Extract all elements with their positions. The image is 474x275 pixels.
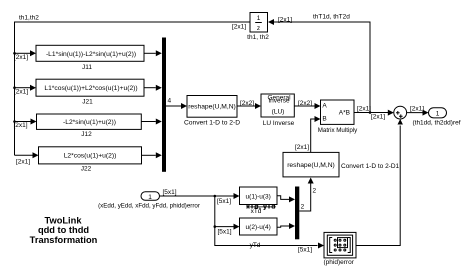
block Fcn J22	[39, 147, 142, 173]
block Fcn J12	[37, 114, 142, 138]
svg-text:-L2*sin(u(1)+u(2)): -L2*sin(u(1)+u(2))	[63, 119, 116, 126]
node junction dot MM output	[369, 111, 372, 114]
svg-text:[2x1]: [2x1]	[14, 54, 28, 61]
wire reshape1 to LU inverse, [2x2]	[237, 100, 261, 109]
svg-text:[5x1]: [5x1]	[298, 247, 312, 254]
wire J22 to mux	[142, 152, 162, 158]
svg-text:[2x1]: [2x1]	[410, 105, 424, 112]
wire yTd to mux2	[278, 223, 296, 229]
block Unit Delay 1/z	[232, 13, 269, 42]
svg-text:[5x1]: [5x1]	[163, 189, 177, 196]
block Selector (phid)error	[324, 232, 356, 266]
wire feedback top: delay output left then down left rail	[15, 22, 251, 155]
wire J12 to mux	[141, 119, 162, 125]
svg-text:A*B: A*B	[339, 110, 350, 117]
svg-text:[2x2]: [2x2]	[298, 100, 312, 107]
svg-text:[5x1]: [5x1]	[217, 198, 231, 205]
wire mux to reshape1 with width 4	[166, 98, 187, 110]
svg-text:(phid)error: (phid)error	[324, 259, 355, 266]
svg-text:-L1*sin(u(1))-L2*sin(u(1)+u(2): -L1*sin(u(1))-L2*sin(u(1)+u(2))	[46, 51, 136, 58]
svg-text:z: z	[257, 25, 260, 32]
svg-text:[2x1]: [2x1]	[16, 158, 30, 165]
svg-text:B: B	[322, 116, 326, 123]
svg-text:(th1dd, th2dd)ref: (th1dd, th2dd)ref	[412, 120, 460, 127]
wire into J11	[14, 50, 36, 61]
mux Mux2 bar	[295, 187, 299, 240]
node junction dot inport branch	[214, 195, 217, 198]
svg-text:L2*cos(u(1)+u(2)): L2*cos(u(1)+u(2))	[64, 152, 117, 159]
svg-text:u(2)-u(4): u(2)-u(4)	[246, 224, 271, 231]
svg-text:yTd: yTd	[250, 242, 261, 249]
block Reshape2 Convert 1-D to 2-D1	[283, 152, 400, 177]
svg-text:1: 1	[257, 15, 261, 22]
wire inport to xTd	[160, 193, 240, 205]
svg-text:[2x1]: [2x1]	[232, 24, 246, 31]
wire into J21	[14, 85, 36, 96]
svg-text:[2x1]: [2x1]	[14, 122, 28, 129]
svg-text:J21: J21	[82, 98, 93, 105]
svg-text:A: A	[322, 103, 327, 110]
svg-text:LU Inverse: LU Inverse	[263, 120, 295, 127]
wire J21 to mux	[144, 85, 162, 91]
svg-text:[2x1]: [2x1]	[14, 89, 28, 96]
block Fcn yTd	[240, 218, 278, 249]
svg-text:1: 1	[148, 194, 152, 201]
svg-text:u(1)-u(3): u(1)-u(3)	[246, 194, 271, 201]
svg-text:4: 4	[168, 98, 172, 105]
wire into J12	[14, 119, 37, 129]
block Reshape Convert 1-D to 2-D	[184, 96, 240, 127]
node junction dot J12 branch	[13, 120, 16, 123]
node junction dot J21 branch	[13, 86, 16, 89]
svg-text:(LU): (LU)	[272, 108, 285, 115]
wire into yTd	[215, 224, 240, 236]
block LU Inverse	[261, 94, 295, 127]
svg-text:th1,th2: th1,th2	[19, 15, 39, 22]
wire feedback up to delay	[268, 14, 370, 113]
wire mux2 up to reshape2	[299, 178, 316, 212]
wire MM output to sum	[354, 106, 394, 121]
wire reshape2 to MM B input	[295, 116, 321, 152]
svg-text:[2x1]: [2x1]	[371, 114, 385, 121]
block Fcn J11	[36, 45, 144, 71]
svg-text:J11: J11	[82, 64, 92, 71]
svg-text:reshape(U,M,N): reshape(U,M,N)	[287, 162, 335, 169]
svg-text:[2x2]: [2x2]	[240, 100, 254, 107]
svg-text:Matrix Multiply: Matrix Multiply	[318, 127, 358, 134]
svg-text:L1*cos(u(1))+L2*cos(u(1)+u(2)): L1*cos(u(1))+L2*cos(u(1)+u(2))	[44, 85, 137, 92]
svg-text:(xEdd, yEdd, xFdd, yFdd, phidd: (xEdd, yEdd, xFdd, yFdd, phidd)error	[98, 203, 200, 210]
svg-text:thT1d, thT2d: thT1d, thT2d	[313, 14, 350, 21]
text title TwoLink qdd to thdd Transformation	[30, 216, 98, 245]
svg-text:Convert 1-D to 2-D: Convert 1-D to 2-D	[184, 119, 240, 126]
svg-text:TwoLink: TwoLink	[44, 216, 82, 226]
wire J11 to mux	[144, 50, 162, 56]
node junction dot yTd branch	[214, 225, 217, 228]
sum block	[394, 106, 407, 119]
svg-text:Transformation: Transformation	[30, 235, 98, 245]
svg-text:xTd: xTd	[251, 208, 262, 215]
block Fcn J21	[36, 79, 144, 105]
node junction dot J11 branch	[13, 52, 16, 55]
inport 1 (xEdd...)	[98, 189, 200, 210]
svg-text:[2x1]: [2x1]	[295, 144, 309, 151]
svg-text:[5x1]: [5x1]	[218, 229, 232, 236]
svg-text:2: 2	[313, 188, 317, 195]
svg-text:[2x1]: [2x1]	[357, 106, 371, 113]
svg-text:J12: J12	[81, 131, 92, 138]
node th1,th2 label	[19, 15, 39, 22]
svg-text:1: 1	[436, 111, 440, 118]
wire branch down to yTd and selector	[215, 196, 324, 254]
svg-text:[2x1]: [2x1]	[278, 16, 292, 23]
outport 1 (th1dd, th2dd)ref	[412, 108, 460, 127]
wire selector to sum bottom	[356, 119, 403, 246]
block Matrix Multiply U1	[318, 100, 358, 134]
svg-text:reshape(U,M,N): reshape(U,M,N)	[188, 104, 236, 111]
wire xTd to mux2	[278, 196, 296, 203]
svg-text:qdd to thdd: qdd to thdd	[38, 225, 89, 235]
svg-text:J22: J22	[81, 166, 92, 173]
wire into J22	[15, 152, 39, 165]
wire sum to outport	[407, 105, 429, 115]
mux Mux1 bar	[162, 38, 166, 172]
wire LU to matrix multiply A, [2x2]	[294, 100, 320, 109]
svg-text:Convert 1-D to 2-D1: Convert 1-D to 2-D1	[341, 163, 400, 170]
svg-text:th1, th2: th1, th2	[247, 34, 269, 41]
svg-text:2: 2	[301, 204, 305, 211]
block Fcn xTd	[240, 187, 278, 215]
svg-text:Inverse: Inverse	[268, 98, 290, 105]
